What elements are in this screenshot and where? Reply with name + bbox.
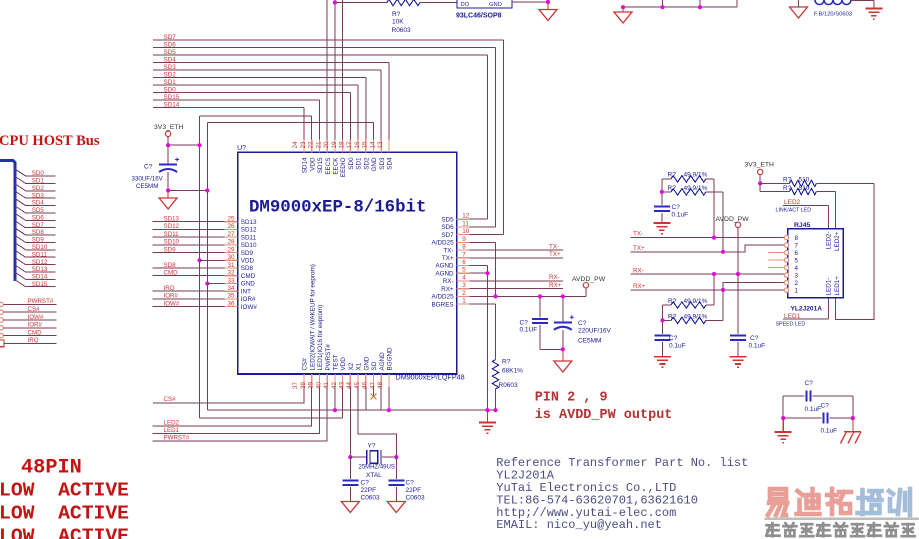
svg-text:A/DD25: A/DD25 xyxy=(432,240,455,247)
wire LED2 wire xyxy=(783,205,828,207)
plates xyxy=(655,335,671,337)
wire SD stub pin46 xyxy=(373,387,375,396)
wire 3V3 to VDD rail xyxy=(168,144,199,146)
wire SD8 line xyxy=(153,267,225,269)
wire SD13 line xyxy=(153,221,225,223)
wire IRQ line xyxy=(4,342,57,344)
svg-text:LOW ACTIVE: LOW ACTIVE xyxy=(0,502,129,524)
svg-text:LED1+: LED1+ xyxy=(834,276,841,296)
wire SD5/SD6/SD7 drop to right pins xyxy=(487,55,489,219)
wire PWRST# line xyxy=(4,303,57,305)
junction TEST j xyxy=(333,408,337,412)
svg-text:R?: R? xyxy=(668,185,677,192)
svg-text:31: 31 xyxy=(227,262,235,269)
svg-text:C?: C? xyxy=(669,335,678,342)
plates xyxy=(822,413,824,424)
wire SD1 stub xyxy=(26,182,56,184)
wire CS# route xyxy=(153,387,304,403)
capacitor C? 0.1uF RX term xyxy=(662,305,664,334)
junction loop j2 xyxy=(851,416,855,420)
svg-text:3: 3 xyxy=(795,272,799,279)
wire bead to earth xyxy=(851,0,874,2)
earth ground xyxy=(865,9,882,20)
svg-text:Y?: Y? xyxy=(368,442,376,449)
resistor body xyxy=(492,360,498,389)
ground xyxy=(159,198,177,209)
wire IOR# line xyxy=(153,298,225,300)
svg-text:R?: R? xyxy=(783,185,792,192)
svg-text:25MHZ/49US: 25MHZ/49US xyxy=(359,465,395,471)
bus entry SD8 xyxy=(15,228,26,235)
svg-text:33: 33 xyxy=(227,277,235,284)
svg-text:9: 9 xyxy=(462,236,466,243)
svg-text:PWRST#: PWRST# xyxy=(28,298,54,305)
offpage connector CS# xyxy=(0,310,3,314)
wire IOW# line xyxy=(4,319,57,321)
net TX- wire xyxy=(631,237,786,239)
svg-text:R0603: R0603 xyxy=(499,382,519,389)
earth ground xyxy=(775,432,792,443)
svg-text:IOW#: IOW# xyxy=(241,304,258,311)
wire SD8 stub xyxy=(26,234,56,236)
svg-text:93LC46/SOP8: 93LC46/SOP8 xyxy=(456,13,502,20)
chassis ground xyxy=(841,432,862,444)
wire xtal left lead xyxy=(350,456,366,458)
svg-text:LOW ACTIVE: LOW ACTIVE xyxy=(0,525,129,539)
svg-text:19: 19 xyxy=(331,141,338,149)
svg-text:CMD: CMD xyxy=(28,329,43,336)
svg-text:SD4: SD4 xyxy=(164,56,177,63)
wire pin2 jog xyxy=(723,283,785,290)
watermark tagline xyxy=(767,523,780,536)
IC U? DM9000 body xyxy=(238,152,457,374)
svg-text:5: 5 xyxy=(462,267,466,274)
wire bus SD4 xyxy=(153,62,389,64)
wire SD11 stub xyxy=(26,256,56,258)
junction cap j2 xyxy=(561,294,565,298)
svg-text:SD12: SD12 xyxy=(164,223,180,230)
wire SD5 stub xyxy=(26,212,56,214)
svg-text:RX-: RX- xyxy=(549,274,560,281)
wire pin2 A/DD25 line xyxy=(470,295,586,297)
wire bus SD14 xyxy=(153,107,304,109)
body xyxy=(671,302,706,308)
svg-text:R0603: R0603 xyxy=(392,27,412,34)
wire BGGND drop pin48 xyxy=(388,387,390,410)
svg-text:SD5: SD5 xyxy=(32,207,45,214)
wire 3V3 stub xyxy=(167,137,169,146)
svg-text:510: 510 xyxy=(799,176,810,183)
svg-text:49.9/1%: 49.9/1% xyxy=(684,298,708,305)
svg-text:49.9/1%: 49.9/1% xyxy=(684,313,708,320)
svg-text:4: 4 xyxy=(795,265,799,272)
svg-text:IOW#: IOW# xyxy=(28,314,44,321)
svg-text:0.1UF: 0.1UF xyxy=(520,327,538,334)
wire earth stub xyxy=(487,410,489,421)
svg-text:INT: INT xyxy=(241,288,251,295)
junction term j xyxy=(660,190,664,194)
svg-text:10K: 10K xyxy=(392,19,404,26)
offpage connector IRQ xyxy=(0,340,4,347)
svg-text:17: 17 xyxy=(346,141,353,149)
wire SD4 stub xyxy=(26,205,56,207)
wire IRQ line xyxy=(153,290,225,292)
svg-text:IRQ: IRQ xyxy=(164,285,175,292)
net GND rail xyxy=(207,122,373,124)
wire IOR# line xyxy=(4,327,57,329)
svg-text:SD12: SD12 xyxy=(32,259,48,266)
svg-text:22PF: 22PF xyxy=(361,487,377,494)
svg-text:8: 8 xyxy=(462,244,466,251)
svg-text:39: 39 xyxy=(308,381,315,389)
svg-text:SD8: SD8 xyxy=(32,229,45,236)
svg-text:1: 1 xyxy=(462,298,466,305)
junction earth j xyxy=(485,408,489,412)
svg-text:C?: C? xyxy=(406,480,415,487)
wire SD0 stub xyxy=(26,175,56,177)
svg-text:SD8: SD8 xyxy=(241,265,254,272)
svg-text:R?: R? xyxy=(783,176,792,183)
svg-text:6: 6 xyxy=(795,250,799,257)
junction X2 j xyxy=(348,455,352,459)
inductor FB ferrite bead xyxy=(815,0,851,5)
svg-text:SD6: SD6 xyxy=(32,215,45,222)
wire CMD line xyxy=(153,275,225,277)
net RX- wire xyxy=(631,273,786,275)
power port 3V3_ETH xyxy=(165,131,170,136)
node EECS/EECK/EEDIO verticals to EEPROM xyxy=(326,0,328,152)
wire AGND drop pin47 xyxy=(380,387,382,410)
wire X2 drop xyxy=(349,387,351,457)
svg-text:SD: SD xyxy=(371,361,378,370)
wire R to 93LC46 xyxy=(420,2,457,4)
body xyxy=(671,189,706,195)
wire LED2- drop xyxy=(827,206,829,229)
svg-text:C?: C? xyxy=(750,335,759,342)
bus entry SD0 xyxy=(15,169,26,176)
junction EECK/R junction xyxy=(333,0,337,4)
power port AVDD_PW 2 xyxy=(735,222,740,227)
bus entry SD5 xyxy=(15,206,26,213)
svg-text:11: 11 xyxy=(462,220,469,227)
svg-text:C0603: C0603 xyxy=(406,495,426,502)
wire SD14 stub xyxy=(26,278,56,280)
svg-text:37: 37 xyxy=(292,381,299,389)
bus entry SD1 xyxy=(15,176,26,183)
capacitor C? 330UF/16V xyxy=(159,164,177,166)
wire bus SD6 xyxy=(153,47,496,49)
svg-text:SD15: SD15 xyxy=(32,281,48,288)
svg-text:SD0: SD0 xyxy=(164,86,177,93)
wire GND to pin33 xyxy=(207,283,224,285)
svg-text:RX+: RX+ xyxy=(633,283,646,290)
svg-text:EMAIL: nico_yu@yeah.net: EMAIL: nico_yu@yeah.net xyxy=(496,518,662,532)
svg-text:SD13: SD13 xyxy=(32,266,48,273)
RJ45 pin 2 xyxy=(784,280,788,284)
ground xyxy=(554,361,572,372)
capacitor C? 220UF/16V xyxy=(562,296,564,321)
svg-text:RX-: RX- xyxy=(633,268,644,275)
svg-text:27: 27 xyxy=(227,231,235,238)
junction loop j1 xyxy=(781,416,785,420)
svg-text:RX+: RX+ xyxy=(441,286,454,293)
wire AVDD stub xyxy=(585,288,587,297)
junction AGND j xyxy=(485,271,489,275)
svg-text:DM9000xEP/LQFP48: DM9000xEP/LQFP48 xyxy=(396,373,465,382)
wire 93LC46 to gnd xyxy=(512,1,548,3)
svg-text:SPEED LED: SPEED LED xyxy=(776,322,806,328)
svg-text:49.9/1%: 49.9/1% xyxy=(684,185,708,192)
wire bus SD2 xyxy=(153,77,366,79)
IC right pin stubs xyxy=(457,218,470,220)
svg-text:14: 14 xyxy=(369,141,376,149)
crystal Y? 25MHZ xyxy=(366,450,368,465)
eeprom U 93LC46 box xyxy=(457,0,512,8)
svg-text:C?: C? xyxy=(361,480,370,487)
svg-text:3V3_ETH: 3V3_ETH xyxy=(745,161,775,168)
wire bus SD7 xyxy=(153,39,503,41)
svg-text:SD10: SD10 xyxy=(32,244,48,251)
svg-text:VDD: VDD xyxy=(340,357,347,371)
connector RJ45 body xyxy=(788,229,844,298)
svg-text:SD6: SD6 xyxy=(164,41,177,48)
RJ45 unused pin stubs 6,5,4 xyxy=(768,252,784,254)
svg-text:SD10: SD10 xyxy=(241,242,257,249)
svg-text:TX-: TX- xyxy=(549,243,559,250)
junction cap j xyxy=(166,188,170,192)
wire EECK to R pullup xyxy=(335,2,387,4)
bus entry SD9 xyxy=(15,235,26,242)
wire SD7 stub xyxy=(26,227,56,229)
wire RX- stub xyxy=(470,280,563,282)
svg-text:is AVDD_PW output: is AVDD_PW output xyxy=(535,408,673,423)
RJ45 pin 5 xyxy=(784,258,788,262)
svg-text:48PIN: 48PIN xyxy=(21,457,82,480)
watermark logo xyxy=(768,489,787,515)
wire ferrite-bead gnd link xyxy=(798,0,800,7)
resistor R? 49.9/1% RX upper xyxy=(663,304,672,306)
wire bead drop xyxy=(873,1,875,8)
svg-text:GND: GND xyxy=(363,356,370,370)
wire CMD line xyxy=(4,335,57,337)
net RX+ wire xyxy=(631,289,786,291)
net VDD rail xyxy=(200,115,312,117)
svg-text:SD1: SD1 xyxy=(164,79,177,86)
resistor R? 510 lower xyxy=(759,183,761,191)
svg-text:AGND: AGND xyxy=(435,263,454,270)
svg-text:GND: GND xyxy=(489,2,502,8)
wire SD3 stub xyxy=(26,197,56,199)
svg-text:20: 20 xyxy=(323,141,330,149)
svg-text:TX+: TX+ xyxy=(633,245,645,252)
RJ45 pin 4 xyxy=(784,265,788,269)
svg-text:2: 2 xyxy=(462,290,466,297)
wire GND drop pin45 xyxy=(365,387,367,410)
svg-text:AGND: AGND xyxy=(379,352,386,371)
svg-text:TEST: TEST xyxy=(333,354,340,370)
svg-text:SD7: SD7 xyxy=(441,232,454,239)
svg-text:SD7: SD7 xyxy=(164,34,177,41)
svg-text:DO: DO xyxy=(461,2,470,8)
capacitor C? 22PF left xyxy=(349,457,351,479)
svg-text:C?: C? xyxy=(578,320,587,327)
svg-text:SD14: SD14 xyxy=(32,274,48,281)
svg-text:30: 30 xyxy=(227,254,235,261)
plates xyxy=(805,391,807,402)
svg-text:46: 46 xyxy=(362,381,369,389)
svg-text:25: 25 xyxy=(227,216,235,223)
wire bus SD15 xyxy=(153,99,320,101)
svg-text:LINK/ACT LED: LINK/ACT LED xyxy=(776,208,812,214)
svg-text:SD9: SD9 xyxy=(32,237,45,244)
svg-text:SD6: SD6 xyxy=(441,224,454,231)
wire cap loop sides xyxy=(782,396,784,418)
resistor R? 510 upper xyxy=(760,182,789,184)
wire bus SD0 xyxy=(153,92,350,94)
svg-text:R?: R? xyxy=(668,313,677,320)
svg-text:LED1-: LED1- xyxy=(826,278,833,296)
svg-text:47: 47 xyxy=(369,381,376,389)
svg-text:AVDD_PW: AVDD_PW xyxy=(572,276,606,283)
earth ground xyxy=(654,357,671,368)
plates xyxy=(342,480,358,482)
svg-text:AGND: AGND xyxy=(435,270,454,277)
svg-text:22PF: 22PF xyxy=(406,487,422,494)
electrolytic xyxy=(554,321,572,323)
wire CS# line xyxy=(4,311,57,313)
wire SD6 stub xyxy=(26,219,56,221)
svg-text:C?: C? xyxy=(821,403,830,410)
svg-text:28: 28 xyxy=(227,239,235,246)
offpage connector IOR# xyxy=(0,326,3,330)
svg-text:SD4: SD4 xyxy=(387,157,394,170)
junction j3 xyxy=(698,5,702,9)
bus entry SD12 xyxy=(15,258,26,265)
wire SD9 line xyxy=(153,252,225,254)
wire SD2 stub xyxy=(26,190,56,192)
svg-text:RX-: RX- xyxy=(443,278,454,285)
junction pin9 j xyxy=(493,294,497,298)
svg-text:SD3: SD3 xyxy=(32,192,45,199)
svg-text:24: 24 xyxy=(292,141,299,149)
svg-text:LED2+: LED2+ xyxy=(834,231,841,251)
wire chassis stub xyxy=(852,418,854,431)
plates xyxy=(388,480,404,482)
svg-text:29: 29 xyxy=(227,246,235,253)
IC top pin stubs xyxy=(303,139,305,152)
svg-text:EECS: EECS xyxy=(325,158,332,175)
capacitor C? 0.1uF TX term xyxy=(661,179,663,205)
svg-text:18: 18 xyxy=(339,141,346,149)
wire earth stub xyxy=(782,418,784,431)
watermark underline xyxy=(765,518,919,521)
wire pin1 BGRES link xyxy=(470,303,496,305)
wire AGND pins 5,6 xyxy=(470,265,488,267)
svg-text:R?: R? xyxy=(502,359,511,366)
svg-text:CS#: CS# xyxy=(302,358,309,371)
svg-text:SD1: SD1 xyxy=(356,157,363,170)
svg-text:SD5: SD5 xyxy=(441,216,454,223)
svg-text:EEDIO: EEDIO xyxy=(340,157,347,177)
RJ45 pin 6 xyxy=(784,250,788,254)
svg-text:IOW#: IOW# xyxy=(164,300,180,307)
RJ45 pin 8 xyxy=(784,235,788,239)
wire top-right AVDD rail xyxy=(623,6,737,8)
svg-text:SD2: SD2 xyxy=(32,185,45,192)
svg-text:SD10: SD10 xyxy=(164,239,180,246)
svg-text:CMD: CMD xyxy=(241,273,256,280)
junction RX- avdd j xyxy=(736,272,740,276)
svg-text:CS#: CS# xyxy=(164,396,177,403)
svg-text:EECK: EECK xyxy=(333,157,340,175)
svg-text:SD14: SD14 xyxy=(164,101,180,108)
svg-text:SD3: SD3 xyxy=(379,157,386,170)
ground xyxy=(614,12,632,23)
junction X1 j xyxy=(394,455,398,459)
svg-text:13: 13 xyxy=(377,141,384,149)
svg-text:SD13: SD13 xyxy=(164,216,180,223)
svg-text:C?: C? xyxy=(672,204,681,211)
svg-text:22: 22 xyxy=(308,141,315,149)
svg-text:SD4: SD4 xyxy=(32,200,45,207)
svg-text:220UF/16V: 220UF/16V xyxy=(578,327,612,334)
svg-text:YL2J201A: YL2J201A xyxy=(791,306,823,313)
junction vdd j xyxy=(197,143,201,147)
wire SD10 line xyxy=(153,244,225,246)
wire SD12 stub xyxy=(26,264,56,266)
wire SD15 stub xyxy=(26,286,56,288)
svg-text:21: 21 xyxy=(315,141,322,149)
earth ground xyxy=(730,357,747,368)
power port 3V3_ETH 2 xyxy=(758,169,763,174)
wire cap bottom lead xyxy=(167,172,169,191)
svg-text:R?: R? xyxy=(392,11,401,18)
svg-text:48: 48 xyxy=(377,381,384,389)
svg-text:SD11: SD11 xyxy=(32,251,48,258)
body xyxy=(790,188,817,194)
svg-text:34: 34 xyxy=(227,285,235,292)
wire gnd stub xyxy=(622,7,624,12)
svg-text:R?: R? xyxy=(668,172,677,179)
svg-text:0.1uF: 0.1uF xyxy=(821,428,838,435)
svg-text:23: 23 xyxy=(300,141,307,149)
svg-text:7: 7 xyxy=(795,242,799,249)
svg-text:IRQ: IRQ xyxy=(28,337,39,344)
svg-text:SD9: SD9 xyxy=(164,246,177,253)
svg-text:68K1%: 68K1% xyxy=(502,368,523,375)
bus entry SD10 xyxy=(15,243,26,250)
svg-text:VDD: VDD xyxy=(241,258,255,265)
wire LED1- rise xyxy=(827,298,829,319)
junction RX- j xyxy=(712,272,716,276)
svg-text:A/DD25: A/DD25 xyxy=(432,294,455,301)
capacitor C? 22PF right xyxy=(395,457,397,479)
svg-text:41: 41 xyxy=(323,381,330,389)
wire LED2 route xyxy=(152,387,311,426)
RJ45 pin 3 xyxy=(784,273,788,277)
offpage connector IOW# xyxy=(0,318,3,322)
svg-text:LED2(IOWAIT / WAKEUP for eepro: LED2(IOWAIT / WAKEUP for eeprom) xyxy=(309,264,316,370)
svg-text:IOR#: IOR# xyxy=(241,296,256,303)
ground xyxy=(790,7,808,18)
junction j2 xyxy=(660,5,664,9)
svg-text:PIN 2 , 9: PIN 2 , 9 xyxy=(535,391,608,406)
wire AVDD_PW drop xyxy=(737,228,739,275)
wire SD13 stub xyxy=(26,271,56,273)
resistor R? 49.9/1% TX lower xyxy=(662,191,671,193)
svg-text:330UF/16V: 330UF/16V xyxy=(132,176,164,183)
svg-text:GND: GND xyxy=(371,157,378,171)
